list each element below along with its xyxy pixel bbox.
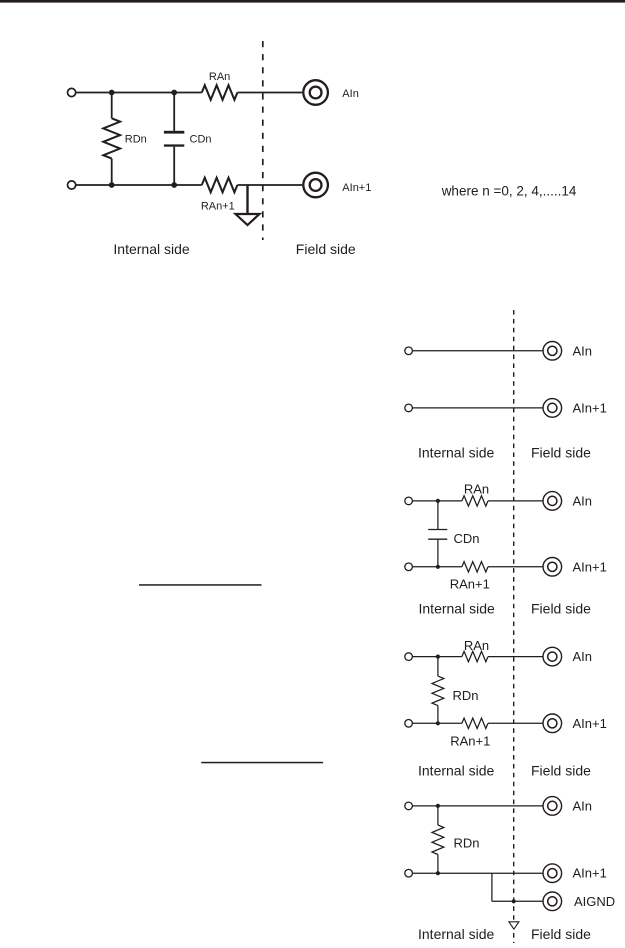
terminal (open circle) D input 2 [405,869,413,877]
terminal AIn (D) [543,797,562,816]
svg-text:Field side: Field side [531,445,591,461]
label AIn+1 (D) [573,866,607,881]
svg-text:Internal side: Internal side [418,763,494,779]
label RDn [125,134,147,146]
junction node D1 [436,804,440,808]
terminal (open circle) input 2 [68,181,76,189]
svg-text:CDn: CDn [454,531,480,546]
svg-text:RDn: RDn [125,134,147,146]
svg-text:RDn: RDn [454,836,480,851]
wire C1 right [488,656,543,658]
svg-text:Internal side: Internal side [113,241,189,257]
label AIGND [574,894,615,909]
svg-text:Internal side: Internal side [419,601,495,617]
label Internal side (A) [418,445,494,461]
wire input2 to RAn+1 [76,184,202,186]
wire B2 left [413,566,462,568]
terminal (open circle) A input 2 [405,404,413,412]
terminal (open circle) B input 2 [405,563,413,571]
junction node 1 (top wire / RDn) [109,90,115,96]
terminal AIn+1 (C) [543,714,562,733]
wire input1 to RAn [76,92,202,94]
junction node D2 [436,871,440,875]
label Internal side (C) [418,763,494,779]
boundary dashed line (top circuit) [262,41,264,240]
label AIn (C) [573,649,593,664]
label Internal side (top) [113,241,189,257]
label Internal side (D) [418,926,494,942]
capacitor CDn (B) [428,501,447,567]
svg-text:RAn: RAn [209,71,230,83]
resistor RAn (B) [462,496,488,506]
terminal (open circle) input 1 [68,88,76,96]
junction node B1 [436,499,440,503]
wire RAn+1 to terminal AIn+1 [237,184,302,186]
svg-text:AIn+1: AIn+1 [342,182,371,194]
terminal AIn+1 [303,173,328,198]
terminal (open circle) A input 1 [405,347,413,355]
terminal AIn (B) [543,492,562,511]
label RAn+1 (B) [450,577,490,592]
svg-text:AIn: AIn [573,493,593,508]
label RAn (C) [464,638,489,653]
svg-text:AIn+1: AIn+1 [573,400,607,415]
label AIn [342,88,359,100]
svg-text:Internal side: Internal side [418,926,494,942]
terminal (open circle) D input 1 [405,802,413,810]
svg-text:RDn: RDn [453,688,479,703]
junction node C1 [436,655,440,659]
wire C1 left [413,656,462,658]
svg-text:AIn: AIn [573,649,593,664]
label AIn+1 [342,182,371,194]
label Field side (C) [531,763,591,779]
label RAn+1 (C) [450,734,490,749]
wire A1 [413,350,543,352]
wire branch down to AIGND [492,873,543,901]
wire B2 right [488,566,543,568]
svg-text:AIn: AIn [573,343,593,358]
resistor RAn+1 (C) [462,718,488,728]
terminal AIn+1 (D) [543,864,562,883]
svg-text:RAn+1: RAn+1 [450,734,490,749]
label RAn+1 [201,201,235,213]
terminal AIn+1 (B) [543,558,562,577]
label AIn+1 (A) [573,400,607,415]
resistor RDn [103,93,120,186]
wire C2 right [488,722,543,724]
junction node 4 (bottom wire / CDn) [171,182,177,188]
svg-text:AIn+1: AIn+1 [573,559,607,574]
label Internal side (B) [419,601,495,617]
horizontal rule 2 [201,762,323,764]
label AIn (D) [573,798,593,813]
svg-text:CDn: CDn [190,134,212,146]
svg-text:AIGND: AIGND [574,894,615,909]
resistor RAn (C) [462,651,488,661]
label AIn+1 (B) [573,559,607,574]
svg-text:RAn: RAn [464,482,489,497]
label Field side (A) [531,445,591,461]
terminal AIn (A) [543,342,562,361]
label CDn [190,134,212,146]
resistor RAn [202,85,238,100]
label Field side (top) [296,241,356,257]
svg-text:AIn+1: AIn+1 [573,866,607,881]
label RDn (D) [454,836,480,851]
wire B1 right [488,500,543,502]
label Field side (B) [531,601,591,617]
resistor RDn (C) [432,657,444,724]
svg-text:AIn: AIn [573,798,593,813]
ground symbol [236,214,260,225]
top border rule [0,0,625,3]
resistor RDn (D) [432,806,444,873]
wire RAn to terminal AIn [237,92,302,94]
svg-text:where n =0, 2, 4,.....14: where n =0, 2, 4,.....14 [441,184,577,199]
junction node AIGND / boundary [512,899,516,903]
terminal (open circle) B input 1 [405,497,413,505]
svg-text:Field side: Field side [531,926,591,942]
capacitor CDn [164,93,184,186]
junction node 2 (top wire / CDn) [171,90,177,96]
label RDn (C) [453,688,479,703]
label RAn (B) [464,482,489,497]
wire D1 [413,805,543,807]
horizontal rule 1 [139,584,262,586]
terminal AIn [303,80,328,105]
label Field side (D) [531,926,591,942]
terminal AIn (C) [543,647,562,666]
note where n [441,184,577,199]
label RAn [209,71,230,83]
junction node C2 [436,721,440,725]
terminal (open circle) C input 1 [405,653,413,661]
terminal AIGND [543,892,562,911]
label AIn (A) [573,343,593,358]
svg-text:RAn+1: RAn+1 [201,201,235,213]
resistor RAn+1 [202,178,238,193]
ground stem [246,185,248,214]
junction node B2 [436,565,440,569]
terminal (open circle) C input 2 [405,720,413,728]
resistor RAn+1 (B) [462,562,488,572]
svg-text:AIn: AIn [342,88,359,100]
wire C2 left [413,722,462,724]
svg-text:Internal side: Internal side [418,445,494,461]
svg-text:RAn+1: RAn+1 [450,577,490,592]
label AIn+1 (C) [573,716,607,731]
svg-text:Field side: Field side [531,601,591,617]
wire A2 [413,407,543,409]
wire B1 left [413,500,462,502]
junction node 3 (bottom wire / RDn) [109,182,115,188]
wire D2 [413,872,543,874]
label AIn (B) [573,493,593,508]
svg-text:Field side: Field side [531,763,591,779]
svg-text:RAn: RAn [464,638,489,653]
svg-text:AIn+1: AIn+1 [573,716,607,731]
ground symbol (boundary) [509,922,519,929]
svg-text:Field side: Field side [296,241,356,257]
terminal AIn+1 (A) [543,399,562,418]
label CDn (B) [454,531,480,546]
boundary dashed line (bottom diagrams) [513,310,515,943]
